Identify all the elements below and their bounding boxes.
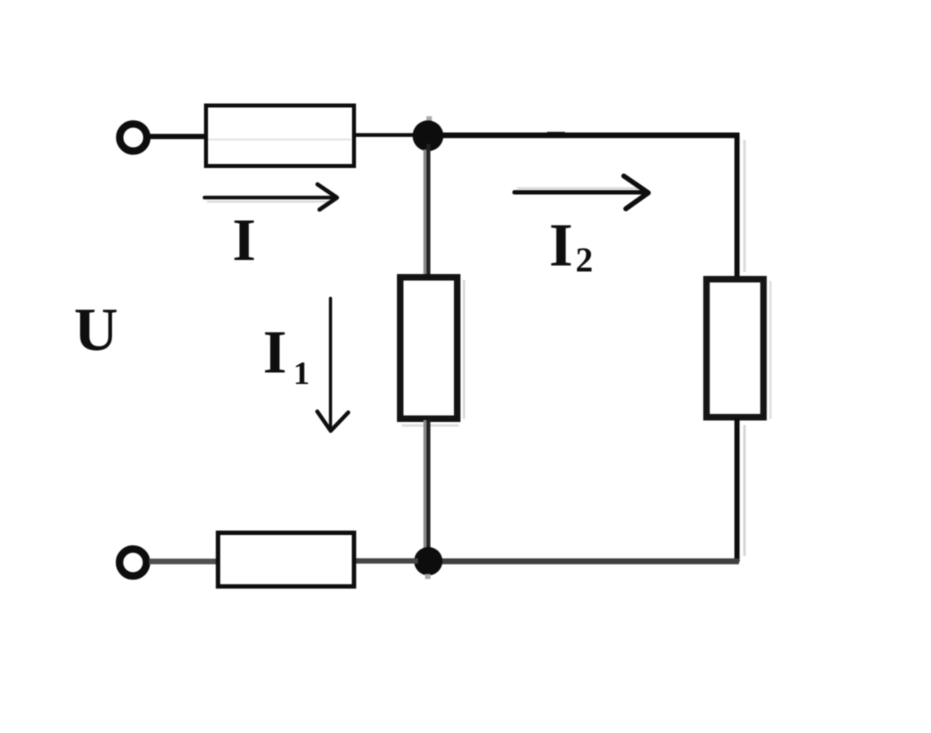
resistor R2 (middle vertical) (400, 277, 457, 418)
wire (ghost) halo right of R3 (769, 281, 771, 419)
wire top-right corner down to R3 (734, 133, 739, 278)
wire bottom-right corner to node B (428, 558, 739, 564)
wire overdraw blob on top wire (547, 132, 565, 138)
current arrow I (ghost echo) (207, 201, 330, 203)
wire (ghost) light echo right of R3 lower vertical wire (743, 425, 746, 556)
current arrow I2 (515, 176, 649, 209)
current arrow I2 (ghost echo) (517, 187, 640, 189)
wire node A down to R2 (two-tone) (425, 144, 429, 276)
node B (bottom junction dot) (414, 547, 442, 579)
wire T1 to R1 (148, 134, 207, 139)
svg-text:I: I (232, 207, 256, 274)
wire R3 bottom down to bottom-right corner (734, 418, 739, 562)
resistor R4 (bottom horizontal) (218, 533, 354, 587)
wire R2 bottom down to node B (two-tone) (425, 420, 429, 556)
wire node A to top-right corner (428, 133, 740, 139)
wire R4 to node B (354, 558, 418, 563)
svg-text:I: I (549, 213, 573, 280)
wire T2 to R4 (149, 559, 219, 565)
wire (ghost) halo below R2 (402, 424, 459, 426)
wire (ghost) light echo right of top-right vertical wire (743, 140, 746, 272)
svg-text:2: 2 (576, 241, 594, 280)
terminal T1 (top-left input) (120, 124, 147, 151)
label I1 (263, 320, 310, 393)
current arrow I1 (317, 298, 348, 431)
svg-text:1: 1 (293, 356, 310, 392)
terminal T2 (bottom-left input) (120, 549, 147, 576)
resistor R1 (top horizontal) (206, 106, 354, 167)
label I2 (549, 213, 593, 280)
wire R1 to node A (353, 133, 428, 137)
svg-text:U: U (74, 297, 118, 364)
resistor R3 (right vertical) (707, 279, 764, 417)
node A (top junction dot) (413, 116, 444, 151)
svg-text:I: I (263, 320, 287, 387)
wire (ghost) halo right of R2 (463, 280, 465, 419)
current arrow I (205, 184, 338, 209)
